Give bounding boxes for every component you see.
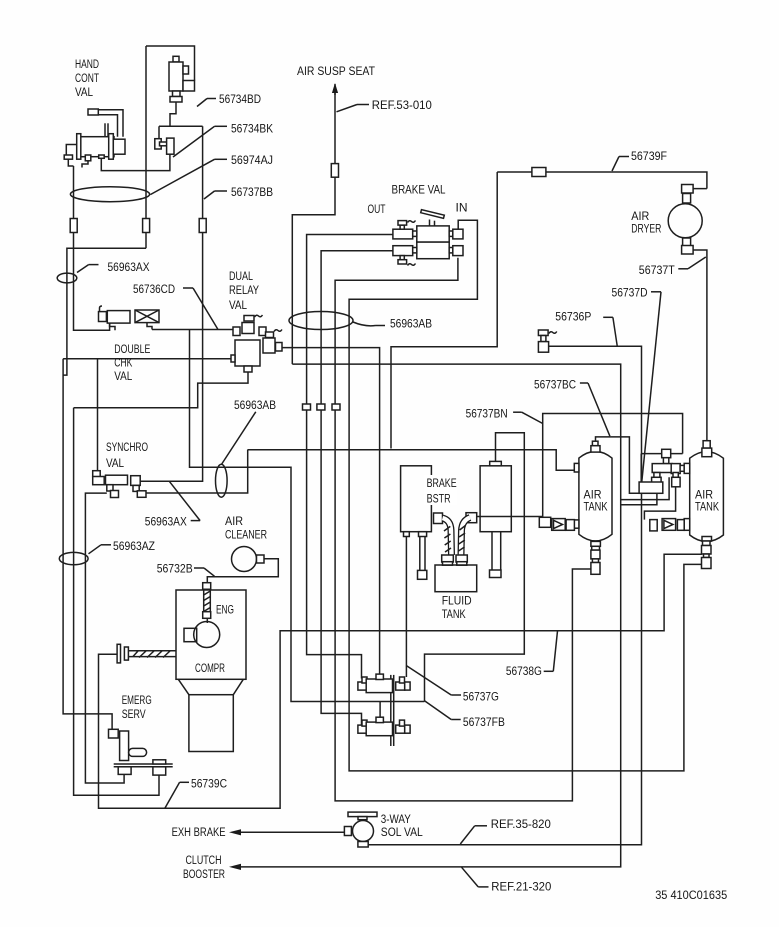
brake booster 2 tube fitting — [490, 570, 502, 578]
wire booster1 foot to twin valve — [405, 537, 407, 678]
label ENG — [216, 603, 234, 617]
wire clutch booster run — [240, 364, 621, 867]
hose 56963AZ ellipse — [59, 552, 88, 564]
brake booster 1 nub left — [404, 532, 410, 537]
svg-text:35 410C01635: 35 410C01635 — [655, 888, 727, 902]
label HAND CONT VAL — [75, 57, 99, 99]
sol valve stem — [358, 817, 367, 820]
wire BK bottom to hand valve port — [101, 154, 170, 170]
svg-text:DRYER: DRYER — [631, 222, 661, 236]
air tank 1 left nub — [574, 463, 579, 472]
brake valve handle — [421, 210, 445, 219]
engine flywheel — [194, 622, 220, 648]
relay right fitting cap — [266, 332, 274, 338]
wire booster2 tube left — [491, 532, 493, 570]
hand control valve inlet pipe — [98, 110, 123, 137]
double check valve crossed box — [135, 310, 159, 323]
svg-text:56974AJ: 56974AJ — [231, 153, 273, 167]
hose 56963AB lower ellipse — [216, 464, 228, 497]
svg-text:RELAY: RELAY — [229, 283, 259, 297]
brake valve out nub lower — [413, 248, 417, 253]
hand control valve extension — [113, 139, 125, 154]
wire double check left foot — [110, 323, 115, 330]
wire crankshaft upper — [128, 650, 176, 652]
air tank 1 bottom square A — [591, 550, 600, 559]
svg-text:56737BN: 56737BN — [466, 406, 508, 420]
union on out line 2 — [317, 404, 325, 410]
air dryer outlet elbow — [682, 238, 694, 254]
governor 56736P body — [538, 342, 548, 353]
wire main supply manifold — [248, 450, 575, 470]
dual relay valve left tab — [231, 355, 235, 362]
svg-text:56963AB: 56963AB — [234, 398, 276, 412]
hose 1 bottom fitting — [442, 555, 454, 562]
synchro valve body — [106, 475, 128, 485]
air tank 2 bottom nub — [702, 537, 712, 542]
dual relay valve top squiggle — [255, 315, 263, 317]
arrow to air susp seat — [332, 83, 338, 95]
label EMERG SERV — [122, 693, 152, 721]
fluid tank body — [435, 565, 477, 592]
svg-text:VAL: VAL — [106, 456, 124, 470]
double check valve squiggle — [100, 306, 103, 311]
air tank 2 bottom fitting — [703, 541, 711, 546]
hose 2 top fitting — [466, 513, 477, 523]
svg-text:OUT: OUT — [368, 202, 386, 216]
synchro valve left foot — [107, 485, 119, 498]
air tank 1 top nub — [591, 446, 600, 452]
valve 56734BD neck — [173, 91, 181, 97]
brake valve in square upper — [453, 229, 463, 239]
svg-text:56737D: 56737D — [612, 286, 648, 300]
hand control valve left flange — [77, 134, 81, 160]
manifold right square — [671, 464, 680, 474]
manifold top square — [662, 449, 671, 457]
svg-text:CHK: CHK — [114, 356, 132, 370]
valve 56734BD cap — [173, 56, 179, 62]
crank coupling plate A — [117, 644, 120, 663]
svg-text:56739F: 56739F — [631, 149, 667, 163]
hose 56963AX ellipse — [57, 273, 77, 283]
hand control valve stem — [105, 123, 108, 136]
air tank 2 bottom neck — [704, 554, 710, 558]
wire branch to synchro left elbow — [97, 359, 99, 473]
svg-text:DOUBLE: DOUBLE — [114, 342, 150, 356]
wire BK manifold horizontal — [159, 125, 203, 127]
relay right fitting square — [276, 343, 283, 352]
wire 56739F air dryer supply — [497, 172, 707, 189]
label 56738G — [506, 631, 558, 678]
emerg serv valve handle — [129, 748, 147, 756]
emerg serv valve body — [120, 731, 129, 761]
synchro valve left elbow — [93, 471, 105, 485]
brake booster 1 body — [401, 466, 432, 532]
svg-text:BOOSTER: BOOSTER — [183, 867, 225, 881]
intake hose bottom fitting — [203, 612, 211, 619]
wire BK left square riser — [158, 126, 160, 138]
hose 1 curved tube — [443, 518, 452, 555]
label 56963AZ — [89, 539, 156, 554]
intake hose striped tube — [204, 589, 211, 611]
svg-text:AIR: AIR — [225, 514, 243, 528]
air cleaner nub — [257, 555, 265, 563]
drawing number — [655, 888, 727, 902]
union on out line 1 — [303, 404, 311, 410]
label 56737BC — [534, 378, 610, 437]
sol valve top bar — [348, 812, 377, 817]
brake booster 1 tube fitting — [418, 570, 427, 579]
brake valve bottom squiggle — [408, 264, 416, 266]
governor 56736P squiggle — [549, 332, 557, 334]
hose 2 bottom fitting — [456, 555, 467, 562]
valve 56734BD body — [169, 62, 183, 91]
hand control valve body — [80, 137, 114, 157]
wire synchro foot to supply riser — [146, 450, 248, 493]
brake valve out port lower — [393, 246, 413, 256]
brake valve out port upper — [393, 229, 413, 239]
label 3-WAY SOL VAL — [381, 812, 423, 839]
compressor lower body — [189, 695, 233, 752]
label 56737D — [612, 286, 662, 482]
label 56963AB upper — [353, 317, 432, 331]
governor 56736P stem — [541, 336, 546, 342]
check valve 2 square B — [677, 520, 684, 531]
fluid tank nub 2 — [457, 562, 467, 566]
manifold cluster square A — [652, 477, 662, 487]
wire jog to 56963AX line — [63, 248, 146, 375]
label FLUID TANK — [442, 594, 472, 621]
air tank 1 body — [579, 451, 612, 540]
emerg serv valve square — [109, 729, 119, 738]
fitting on line x146 — [143, 219, 150, 233]
brake valve in square lower — [453, 246, 463, 256]
label 56737BN — [466, 406, 543, 423]
wire brake valve out lower — [321, 251, 393, 726]
synchro valve right foot — [133, 485, 146, 497]
hand control valve left foot — [64, 155, 72, 159]
union on delivery line — [332, 404, 340, 410]
sol valve bottom nub — [358, 842, 368, 848]
wire 56737BN drop to manifold — [641, 453, 682, 455]
fitting on 56739F line — [532, 168, 546, 177]
check valve 1 square A — [539, 517, 550, 527]
fitting on line x202 — [199, 219, 206, 233]
label BRAKE BSTR — [424, 475, 458, 505]
check valve 1 body — [552, 519, 566, 531]
relay right fitting body — [263, 338, 275, 353]
double check valve left fitting — [99, 312, 107, 322]
svg-text:56963AX: 56963AX — [108, 260, 150, 274]
protection valve lower — [358, 717, 410, 735]
wire air dryer outlet to tank2 — [689, 250, 707, 441]
wire hand valve foot step — [82, 161, 88, 168]
hand control valve port B fitting — [99, 155, 105, 158]
air tank 1 bottom square B — [591, 563, 600, 575]
svg-text:TANK: TANK — [584, 500, 609, 514]
emerg serv foot — [118, 767, 131, 775]
label REF.53-010 — [337, 98, 432, 112]
label AIR SUSP SEAT — [297, 64, 375, 78]
air tank 1 bottom fitting — [592, 546, 600, 550]
hand control valve port A fitting — [85, 155, 91, 161]
svg-text:BRAKE: BRAKE — [427, 476, 457, 490]
fluid tank nub 1 — [443, 562, 453, 566]
label AIR TANK right — [695, 487, 720, 513]
air tank 2 top nub — [702, 448, 712, 457]
intake hose top fitting — [203, 583, 211, 590]
label 56737BB — [204, 185, 273, 199]
dual relay valve top cap — [244, 316, 254, 322]
svg-text:EMERG: EMERG — [122, 693, 152, 707]
wire booster1 tube right — [424, 537, 426, 571]
air tank 1 upper nub — [592, 441, 598, 446]
hand control valve left bracket — [66, 145, 76, 156]
fitting on air susp line — [331, 164, 338, 178]
air cleaner body — [232, 547, 257, 572]
wire 56734BD foot to BK manifold — [170, 102, 176, 126]
label 56739F — [612, 149, 667, 171]
brake valve in nub lower — [449, 248, 453, 253]
label OUT — [368, 202, 386, 216]
svg-text:56734BK: 56734BK — [231, 122, 274, 136]
sol valve left nub — [344, 827, 351, 836]
svg-text:HAND: HAND — [75, 57, 99, 71]
label IN — [456, 201, 468, 215]
label AIR CLEANER — [225, 514, 267, 541]
wire into air dryer inlet — [689, 188, 707, 190]
svg-text:REF.35-820: REF.35-820 — [491, 817, 551, 831]
wire twin valve mounting bar right — [393, 675, 395, 746]
label 56963AX upper — [77, 260, 150, 274]
label 56734BK — [173, 122, 274, 157]
svg-text:ENG: ENG — [216, 603, 234, 617]
synchro valve right square — [131, 476, 141, 486]
sol valve body — [353, 821, 374, 842]
manifold neck — [663, 458, 668, 464]
dual relay valve bottom tab — [244, 366, 252, 372]
svg-text:56736P: 56736P — [555, 310, 591, 324]
wire hose to engine — [206, 618, 208, 623]
wire tee x189 to twin valve feed — [190, 330, 425, 702]
air tank 1 bottom nub — [591, 541, 601, 546]
wire brake valve in from tank — [349, 220, 702, 771]
wire cluster to tank2 check valve — [644, 487, 675, 520]
label REF.35-820 — [460, 817, 551, 844]
hand control valve right flange — [109, 134, 114, 160]
svg-text:REF.53-010: REF.53-010 — [372, 98, 432, 112]
label 56734BD — [197, 92, 261, 106]
brake valve top fitting cap — [398, 221, 407, 226]
svg-text:VAL: VAL — [75, 85, 93, 99]
air tank 2 left nub — [684, 519, 690, 531]
compressor body — [176, 590, 246, 679]
wire hand valve to double check valve — [74, 166, 110, 330]
hose 56963AB ellipse — [289, 312, 353, 330]
label DUAL RELAY VAL — [229, 269, 259, 312]
svg-text:VAL: VAL — [114, 369, 132, 383]
emerg serv right fitting top — [153, 760, 166, 764]
svg-text:VAL: VAL — [229, 298, 247, 312]
valve 56734BK link — [160, 142, 167, 146]
air dryer body — [668, 204, 702, 238]
wire synchro left foot to emerg serv — [85, 493, 124, 783]
wire booster1 tube left — [419, 537, 421, 571]
wire booster2 tube right — [500, 532, 502, 570]
valve 56734BD foot — [170, 97, 182, 103]
engine block — [184, 628, 197, 641]
air dryer inlet elbow — [682, 185, 694, 204]
air tank 1 lower left nub — [574, 520, 579, 528]
double check valve body — [107, 311, 130, 324]
label 56739C — [165, 776, 227, 808]
label 56737T — [639, 257, 706, 277]
brake valve lower body — [417, 242, 449, 259]
manifold lower nub A — [654, 473, 660, 478]
label 56732B — [157, 562, 215, 577]
brake booster 2 body — [480, 466, 511, 532]
wire brake valve delivery to tank1 bottom — [335, 258, 591, 801]
crankshaft hatched section — [133, 651, 170, 658]
svg-text:56737G: 56737G — [463, 690, 499, 704]
label 56737G — [406, 666, 499, 704]
crank coupling plate B — [124, 647, 128, 660]
wire relay supply bus x63 down to emergency valve — [63, 359, 112, 730]
arrow clutch booster — [229, 864, 241, 870]
check valve 1 square B — [566, 520, 574, 531]
brake valve handle stem — [430, 220, 435, 226]
dual relay valve upper body — [242, 323, 254, 334]
wire 56736P line to 3-way sol valve — [368, 346, 641, 845]
wire lower valve nub riser — [379, 702, 381, 718]
hose 1 top fitting — [434, 513, 443, 524]
wire x146 drop from loop — [145, 46, 147, 248]
svg-text:56737T: 56737T — [639, 263, 675, 277]
valve 56734BK body — [167, 138, 174, 154]
brake valve bottom fitting cap — [398, 260, 407, 264]
emerg serv right fitting block — [153, 767, 166, 775]
manifold cluster square B — [672, 477, 680, 487]
air tank 2 body — [690, 452, 724, 542]
label 56963AX lower — [145, 481, 200, 529]
brake valve in nub upper — [449, 231, 453, 236]
label BRAKE VAL — [392, 183, 446, 197]
wire air cleaner to compressor intake — [207, 559, 278, 583]
svg-text:IN: IN — [456, 201, 468, 215]
wire cluster branch upper — [621, 477, 669, 499]
manifold lower nub B — [673, 473, 678, 478]
air tank 2 bottom square B — [702, 558, 712, 569]
valve 56734BD right tab — [183, 66, 189, 74]
label 56974AJ — [150, 153, 273, 194]
wire double check right foot — [147, 323, 152, 330]
label REF.21-320 — [462, 867, 552, 893]
air tank 2 bottom square A — [702, 546, 712, 555]
emerg serv base plate — [114, 764, 173, 767]
label SYNCHRO VAL — [106, 440, 148, 470]
label COMPR — [195, 661, 225, 675]
svg-text:3-WAY: 3-WAY — [381, 812, 411, 826]
protection valve 56737G — [358, 674, 410, 693]
label 56736P — [555, 310, 617, 346]
svg-text:DUAL: DUAL — [229, 269, 253, 283]
svg-text:56739C: 56739C — [191, 776, 227, 790]
svg-text:CLEANER: CLEANER — [225, 528, 267, 542]
valve 56734BD right step — [183, 81, 195, 92]
manifold tank link square — [684, 463, 690, 473]
wire crankshaft lower — [128, 656, 176, 658]
svg-text:TANK: TANK — [442, 607, 467, 621]
svg-text:56736CD: 56736CD — [133, 282, 175, 296]
label AIR TANK left — [584, 487, 609, 513]
svg-text:TANK: TANK — [695, 500, 720, 514]
svg-text:56963AB: 56963AB — [390, 317, 432, 331]
svg-text:56737BB: 56737BB — [231, 185, 273, 199]
wire compressor discharge to tank2 — [99, 554, 702, 808]
hand control valve top connector — [88, 109, 98, 115]
label EXH BRAKE — [172, 825, 226, 839]
relay right fitting squiggle — [274, 330, 282, 332]
svg-text:REF.21-320: REF.21-320 — [491, 880, 551, 894]
check valve 2 body — [662, 519, 676, 531]
svg-text:SYNCHRO: SYNCHRO — [106, 440, 148, 454]
dual relay valve cross left square — [233, 327, 240, 336]
svg-text:CONT: CONT — [75, 71, 99, 85]
brake valve upper body — [417, 226, 449, 242]
wire bus x74 down to emerg serv base — [74, 408, 159, 796]
wire 56737BN manifold riser — [640, 454, 642, 482]
brake valve top squiggle — [408, 221, 416, 223]
brake valve bottom fitting stem — [400, 256, 404, 260]
label 56736CD — [133, 282, 218, 329]
svg-text:SERV: SERV — [122, 707, 147, 721]
svg-text:56963AZ: 56963AZ — [113, 539, 155, 553]
air tank 1 bottom neck — [592, 559, 598, 563]
svg-text:BSTR: BSTR — [427, 491, 451, 505]
wire booster2 to fluid frame — [425, 433, 525, 702]
wire cluster branch lower — [621, 487, 657, 505]
dual relay valve main body — [235, 340, 260, 366]
valve 56734BK left square — [155, 139, 161, 149]
label CLUTCH BOOSTER — [183, 853, 225, 881]
wire top loop from hand valve to 56734BD — [146, 46, 195, 81]
fitting on line x74 — [70, 219, 77, 233]
wire 56737BN run — [477, 414, 683, 517]
label 56963AB lower — [222, 398, 277, 464]
hose 2 curved tube — [459, 518, 471, 555]
svg-text:BRAKE VAL: BRAKE VAL — [392, 183, 446, 197]
manifold bar — [652, 464, 672, 473]
wire exh brake line — [240, 831, 344, 833]
wire 56739F down to governor tee — [391, 172, 497, 449]
manifold right nub — [680, 465, 684, 471]
wire double check to relay cross — [152, 329, 239, 331]
manifold block — [639, 482, 663, 493]
svg-text:SOL VAL: SOL VAL — [381, 825, 423, 839]
wire 56737BB main line down to synchro valve — [140, 126, 202, 481]
brake booster 1 nub right — [419, 532, 427, 537]
svg-text:AIR SUSP SEAT: AIR SUSP SEAT — [297, 64, 375, 78]
svg-text:56738G: 56738G — [506, 664, 542, 678]
svg-text:56963AX: 56963AX — [145, 515, 187, 529]
wire air susp seat riser — [292, 90, 335, 364]
wire relay bottom delivery — [74, 372, 248, 408]
svg-text:56732B: 56732B — [157, 562, 193, 576]
wire brake valve out upper — [307, 235, 393, 679]
label 56737FB — [425, 701, 505, 729]
wire relay left tab feed — [63, 358, 231, 360]
check valve 2 square A — [650, 520, 657, 531]
arrow exh brake — [229, 829, 241, 835]
